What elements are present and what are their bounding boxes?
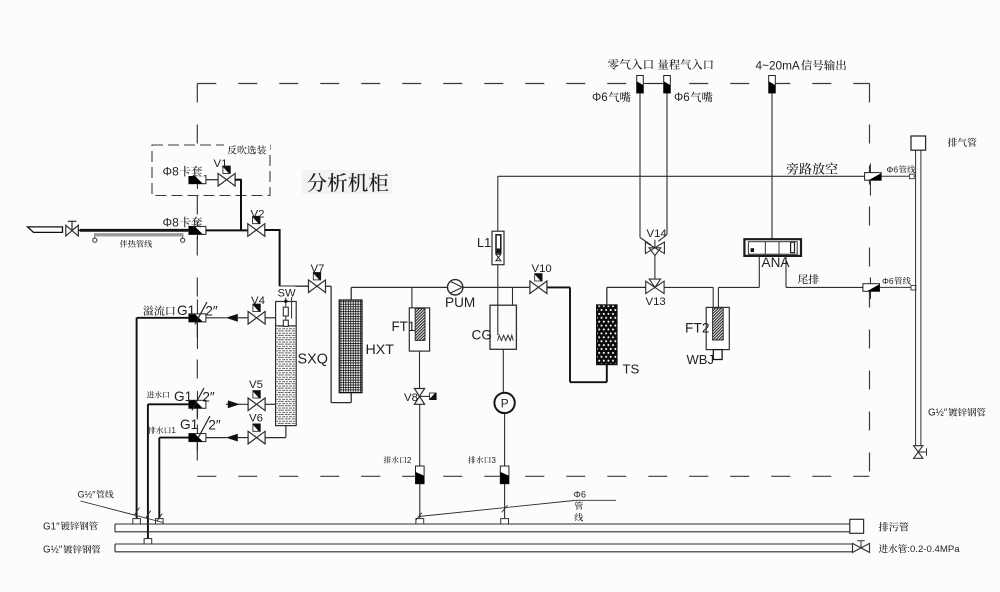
overflow arrow [238, 317, 248, 319]
sampling probe [28, 227, 63, 233]
filter FT2 [706, 307, 729, 349]
leader line to pipe drops [81, 501, 164, 523]
svg-text:WBJ: WBJ [687, 352, 714, 367]
wire arrow to fitting [206, 317, 227, 319]
bulkhead fitting span gas inlet [664, 76, 671, 94]
filter FT1 [409, 308, 429, 351]
label 排水口1 [148, 427, 170, 434]
wire V10 to TS bottom loop [547, 286, 570, 288]
wire CG bottom to gauge P [502, 349, 504, 392]
three-way valve V14 [645, 242, 655, 254]
svg-text:G1: G1 [180, 417, 198, 432]
water supply pipe G1/2 镀锌钢管 [115, 543, 852, 545]
exhaust pipe cap box [911, 136, 926, 150]
wire probe to heat-traced line [78, 229, 82, 231]
wire down to V7 level [279, 229, 281, 286]
drain bulkhead fitting 排水口2 [416, 466, 425, 484]
svg-text:V4: V4 [251, 295, 265, 307]
wire to exhaust pipe [880, 286, 912, 288]
zero gas wire down to V14 [639, 93, 641, 238]
junction wire up to V1 branch [240, 180, 242, 231]
wire drain2 to waste pipe [419, 484, 421, 519]
label 伴热管线 [120, 240, 152, 248]
signal wire down to ANA [771, 93, 773, 239]
wire HXT top to main header [350, 287, 352, 300]
wire V1 to junction [235, 179, 242, 181]
svg-text:P: P [501, 396, 509, 410]
valve V6 [248, 431, 265, 444]
svg-text:G1: G1 [174, 389, 192, 404]
label 排气管 [948, 138, 977, 147]
bypass vent wire 旁路放空 [498, 175, 865, 177]
drain wire to waste pipe [159, 437, 189, 439]
wire V5 to SXQ [265, 403, 275, 405]
SXQ bottom outlet wire [285, 426, 287, 438]
level switch SW [285, 298, 287, 308]
svg-text:V7: V7 [311, 263, 325, 275]
svg-text:V8: V8 [404, 392, 418, 404]
svg-text:Φ8: Φ8 [163, 164, 180, 178]
svg-text:G1: G1 [177, 303, 195, 318]
valve V2 [248, 224, 265, 237]
valve V4 [248, 312, 265, 325]
wire V4 to SXQ [265, 317, 275, 319]
svg-text:3: 3 [491, 456, 496, 465]
svg-text:CG: CG [472, 328, 492, 343]
water seal vessel SXQ [276, 302, 297, 426]
water inlet wire to supply pipe [148, 403, 189, 405]
svg-text:V14: V14 [647, 228, 667, 240]
svg-text:Φ6: Φ6 [674, 91, 690, 104]
wire to V7 [280, 285, 309, 287]
svg-text:4~20mA: 4~20mA [756, 59, 800, 73]
svg-text:V13: V13 [646, 296, 666, 308]
wire FT2 out to ANA [717, 287, 719, 307]
svg-text:PUM: PUM [445, 295, 475, 310]
manual valve at probe [66, 225, 79, 236]
blowback option dashed box 反吹选装 [152, 145, 270, 196]
svg-text:V2: V2 [251, 209, 265, 221]
label 进水口 [147, 391, 169, 398]
svg-text:V5: V5 [249, 379, 263, 391]
wire FT1 bottom to V8 [419, 351, 421, 389]
svg-text:V1: V1 [214, 158, 228, 170]
svg-text::0.2-0.4MPa: :0.2-0.4MPa [907, 544, 960, 555]
wall fitting 进水口G1/2 [196, 391, 198, 418]
svg-text:2: 2 [407, 456, 412, 465]
analysis cabinet dashed border 分析机柜 [197, 83, 869, 85]
svg-text:Φ6: Φ6 [882, 276, 894, 286]
supply pipe end valve [853, 543, 862, 552]
svg-text:FT2: FT2 [685, 320, 710, 335]
svg-text:SXQ: SXQ [298, 351, 328, 367]
svg-text:Φ6: Φ6 [887, 164, 899, 174]
wire pump to CG junction and V10 [463, 286, 529, 288]
exhaust pipe bottom valve [914, 446, 923, 452]
drain bulkhead fitting 排水口3 [500, 466, 509, 484]
label SW [277, 287, 296, 298]
wire gauge to drain fitting 3 [504, 413, 506, 466]
svg-text:V6: V6 [249, 413, 263, 425]
overflow wire to waste pipe [137, 317, 189, 319]
label Φ8卡套 blowback [161, 164, 204, 176]
label 反吹选装 [224, 144, 270, 155]
svg-text:2″: 2″ [202, 389, 215, 404]
wire drain3 to waste pipe [504, 484, 506, 519]
bulkhead fitting 4-20mA signal output [769, 76, 776, 94]
svg-text:Φ6: Φ6 [592, 91, 608, 104]
top border connector wire [643, 83, 664, 85]
wire fitting to V2 [206, 229, 248, 231]
wire fitting to V1 [206, 179, 218, 181]
svg-text:1: 1 [171, 426, 176, 435]
wire TS top to V13 [606, 287, 608, 305]
svg-text:G½″: G½″ [43, 545, 63, 556]
label 零气入口 [608, 59, 653, 70]
ferrule fitting blowback Φ8卡套 [196, 171, 198, 190]
waste pipe end box 排污管 [850, 519, 864, 533]
dip tube wire into CG [497, 265, 499, 335]
valve V1 [218, 173, 235, 186]
rotameter L1 [492, 231, 504, 265]
drain arrow [238, 437, 249, 439]
label 量程气入口 [658, 59, 713, 69]
wire V13 right to FT2 [664, 286, 713, 288]
pressure gauge P [494, 393, 514, 413]
label 排水口2 [384, 456, 406, 463]
inlet arrow [226, 403, 248, 405]
svg-text:TS: TS [623, 361, 640, 376]
wire junction down into CG [512, 287, 514, 305]
label 进水管 0.2-0.4MPa [879, 544, 907, 553]
svg-text:2″: 2″ [208, 417, 221, 432]
bulkhead fitting zero gas inlet [637, 76, 644, 94]
pump PUM [448, 280, 463, 295]
wire branch down to FT1 [411, 287, 413, 308]
svg-text:Φ8: Φ8 [163, 215, 180, 229]
label 排水口3 [468, 456, 490, 463]
three-way valve V13 [646, 281, 655, 293]
wall fitting 溢流口G1/2 [196, 300, 198, 350]
wire V7 to HXT bottom [325, 285, 331, 287]
valve V10 [530, 281, 547, 294]
ferrule fitting sample inlet Φ8卡套 [196, 222, 198, 240]
svg-text:G½″: G½″ [78, 489, 97, 499]
ferrule fitting 尾排 Φ6管线 [869, 278, 871, 300]
svg-text:G1″: G1″ [43, 521, 60, 532]
dryer column TS [597, 305, 617, 365]
leader line Φ6 管线 bottom [419, 501, 574, 517]
waste pipe G1 镀锌钢管 [115, 523, 850, 525]
wire V13 left to TS top [607, 286, 646, 288]
wash bottle CG [490, 305, 516, 349]
label 溢流口G1/2 [143, 305, 175, 315]
analyzer ANA [744, 239, 801, 256]
svg-text:HXT: HXT [366, 342, 395, 358]
ferrule fitting bypass Φ6管线 [869, 164, 871, 196]
bypass wire L1 to vent header [497, 176, 499, 231]
three-way solenoid valve V8 [414, 389, 424, 397]
label 分析机柜 [302, 170, 392, 194]
wire V8 down to drain fitting 2 [419, 404, 421, 466]
svg-text:Φ6: Φ6 [574, 489, 586, 499]
thermostat box WBJ [713, 350, 722, 360]
exhaust pipe 排气管 double line [915, 150, 917, 446]
label 尾排 [798, 274, 819, 284]
valve V5 [248, 398, 265, 411]
heat traced sample line 伴热管线 [80, 229, 190, 232]
label 排污管 [879, 522, 909, 531]
tail vent wire 尾排 [785, 256, 787, 288]
svg-text:L1: L1 [477, 235, 491, 250]
span gas wire down to V14 [666, 93, 668, 235]
valve V7 [309, 280, 326, 293]
label 旁路放空 [787, 163, 838, 175]
svg-text:2″: 2″ [205, 303, 218, 318]
svg-text:G½″: G½″ [928, 408, 948, 419]
svg-text:V10: V10 [532, 263, 552, 275]
svg-text:SW: SW [278, 287, 296, 299]
wire V2 to downpipe [265, 229, 280, 231]
wire to exhaust pipe top [881, 175, 910, 177]
svg-text:FT1: FT1 [392, 319, 416, 334]
wall fitting 排水口1 G1/2 [196, 425, 198, 452]
wire V14 to V13 [654, 256, 656, 280]
heat exchanger HXT [339, 300, 362, 393]
